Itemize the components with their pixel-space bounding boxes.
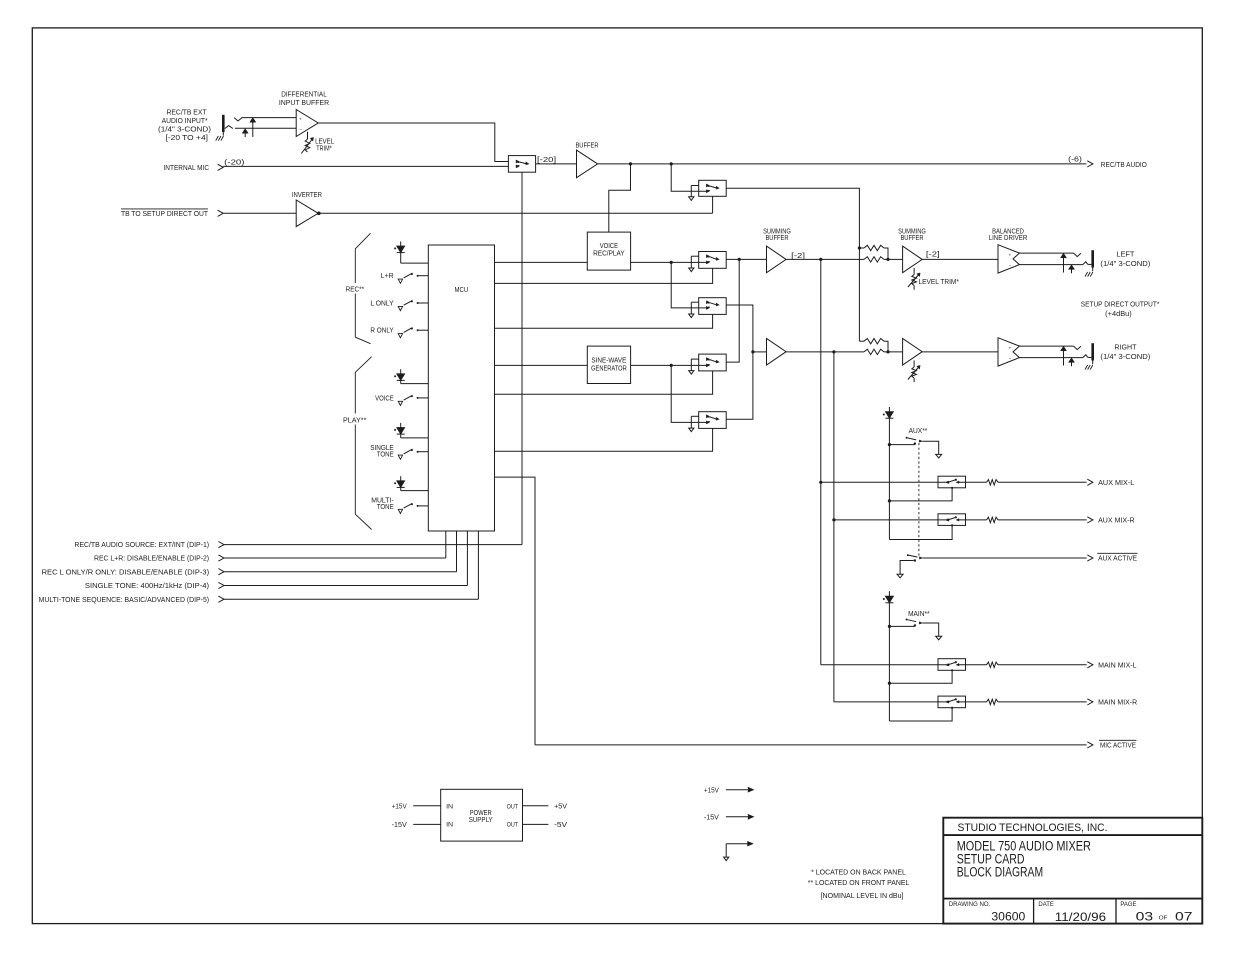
junction summing feed left	[858, 246, 861, 249]
svg-text:MAIN**: MAIN**	[908, 611, 930, 618]
wire junction down to VOICE REC/PLAY	[609, 164, 631, 232]
switch AUX ACTIVE contact	[909, 555, 918, 557]
svg-text:* LOCATED ON BACK PANEL: * LOCATED ON BACK PANEL	[811, 870, 906, 877]
svg-text:SETUP DIRECT OUTPUT*: SETUP DIRECT OUTPUT*	[1081, 301, 1160, 308]
svg-text:LEVEL TRIM*: LEVEL TRIM*	[919, 279, 960, 286]
junction main switch	[888, 625, 891, 628]
analog switch S6 tone right	[699, 412, 727, 429]
svg-text:[-2]: [-2]	[791, 253, 805, 260]
junction main control	[888, 682, 891, 685]
ground legend symbol	[726, 843, 749, 845]
wire S3 control to MCU	[495, 268, 713, 283]
junction aux control	[888, 499, 891, 502]
op-amp U1 differential input buffer	[296, 110, 318, 137]
svg-text:BUFFER: BUFFER	[575, 143, 598, 150]
svg-text:REC**: REC**	[346, 286, 365, 293]
block VOICE REC/PLAY	[587, 232, 630, 270]
svg-text:MAIN MIX-R: MAIN MIX-R	[1098, 700, 1137, 707]
potentiometer LEVEL TRIM left output	[913, 268, 915, 275]
svg-text:TRIM*: TRIM*	[316, 145, 332, 152]
wire S4 output to summing buffer B	[726, 305, 753, 352]
svg-text:INPUT BUFFER: INPUT BUFFER	[279, 100, 329, 107]
wire S3 output to summing buffer A	[726, 258, 766, 260]
wire S6 output up to summing buffer B input	[726, 352, 753, 419]
wire -15V to power supply	[413, 823, 441, 825]
wire DIP-5	[224, 598, 478, 600]
svg-text:LEFT: LEFT	[1116, 251, 1135, 258]
block SINE-WAVE GENERATOR	[587, 346, 630, 383]
junction S4/S6 join	[751, 350, 754, 353]
svg-text:MAIN MIX-L: MAIN MIX-L	[1098, 662, 1137, 669]
wire U1 output to source switch	[318, 123, 508, 162]
svg-text:PLAY**: PLAY**	[343, 417, 367, 424]
svg-text:AUX ACTIVE: AUX ACTIVE	[1098, 556, 1137, 563]
svg-text:VOICE: VOICE	[600, 243, 619, 250]
title block frame	[943, 818, 1202, 924]
switch L+R pushbutton	[418, 275, 429, 277]
svg-text:[-2]: [-2]	[926, 252, 940, 259]
svg-text:REC/TB AUDIO SOURCE: EXT/INT (: REC/TB AUDIO SOURCE: EXT/INT (DIP-1)	[74, 542, 209, 549]
analog switch S4 voice right	[699, 298, 727, 315]
svg-text:REC/PLAY: REC/PLAY	[593, 251, 625, 258]
node REC/TB AUDIO output arrow	[1087, 161, 1093, 167]
op-amp U6 summing buffer left output	[903, 246, 923, 273]
svg-text:OUT: OUT	[507, 803, 518, 810]
svg-text:L ONLY: L ONLY	[370, 300, 394, 307]
ground at MAIN switch	[938, 635, 940, 637]
wire MAIN MIX-R out	[998, 701, 1087, 703]
ground at S2	[691, 185, 698, 187]
svg-text:IN: IN	[446, 803, 453, 810]
analog switch S5 tone left	[699, 354, 727, 371]
wire INTERNAL MIC to source switch	[223, 165, 508, 167]
wire MAIN MIX-R line	[834, 701, 947, 703]
junction buffer output to voice rec/play	[629, 162, 632, 165]
wire DIP-3	[224, 571, 457, 573]
svg-text:DIFFERENTIAL: DIFFERENTIAL	[281, 91, 327, 98]
wire MAIN MIX-L line	[821, 664, 947, 666]
node -15V arrow legend	[726, 816, 750, 818]
node MAIN MIX-R arrow	[1087, 699, 1093, 705]
analog switch S1 REC/TB source EXT/INT	[508, 156, 535, 173]
wire driver left cold output	[1019, 264, 1083, 266]
wire MAIN MIX-L out	[998, 664, 1087, 666]
wire S1 control to DIP-1	[521, 172, 523, 544]
wire SINE output	[631, 364, 707, 366]
wire ganged link AUX (dashed)	[918, 443, 920, 557]
wire +5V output	[523, 805, 549, 807]
svg-text:(1/4" 3-COND): (1/4" 3-COND)	[158, 126, 211, 133]
svg-text:[NOMINAL LEVEL IN dBu]: [NOMINAL LEVEL IN dBu]	[821, 893, 904, 900]
svg-text:STUDIO TECHNOLOGIES, INC.: STUDIO TECHNOLOGIES, INC.	[958, 822, 1108, 834]
wire U7 to line driver right	[922, 351, 998, 353]
wire MCU to SINE-WAVE GENERATOR	[495, 364, 588, 366]
analog switch S7 AUX MIX-L	[938, 476, 966, 488]
node TB TO SETUP DIRECT OUT input arrow	[218, 210, 224, 216]
potentiometer trim right output	[913, 360, 915, 367]
svg-text:TONE: TONE	[377, 504, 394, 511]
resistor summing left lower	[864, 257, 884, 262]
resistor summing right lower	[864, 349, 884, 354]
svg-text:TB TO SETUP DIRECT OUT: TB TO SETUP DIRECT OUT	[121, 211, 209, 218]
junction resistor node left	[886, 258, 889, 261]
wire AUX MIX-L out	[998, 481, 1087, 483]
svg-text:+5V: +5V	[554, 803, 567, 810]
connector J3 RIGHT output jack	[1074, 346, 1081, 350]
svg-text:LEVEL: LEVEL	[315, 138, 334, 145]
wire S4 control to MCU	[495, 314, 713, 328]
brace REC group	[355, 233, 370, 283]
wire buffer B input	[753, 351, 767, 353]
brace PLAY group	[355, 357, 371, 414]
analog switch S2 TB mute	[699, 180, 727, 196]
wire REC/TB AUDIO line	[598, 163, 1087, 165]
analog switch S8 AUX MIX-R	[938, 514, 966, 526]
svg-text:MIC ACTIVE: MIC ACTIVE	[1100, 743, 1136, 750]
wire +15V to power supply	[413, 805, 441, 807]
svg-text:SUPPLY: SUPPLY	[469, 817, 493, 824]
svg-text:+15V: +15V	[392, 803, 407, 810]
node AUX MIX-L arrow	[1087, 479, 1093, 485]
block POWER SUPPLY	[441, 789, 523, 841]
wire buffer B output	[786, 351, 864, 353]
svg-text:-5V: -5V	[554, 822, 567, 829]
svg-text:BUFFER: BUFFER	[900, 235, 923, 242]
svg-text:11/20/96: 11/20/96	[1055, 910, 1107, 924]
svg-text:−: −	[299, 128, 302, 133]
svg-text:30600: 30600	[991, 909, 1025, 923]
svg-text:(-6): (-6)	[1068, 157, 1082, 164]
switch SINGLE TONE pushbutton	[418, 451, 429, 453]
svg-text:BLOCK DIAGRAM: BLOCK DIAGRAM	[957, 865, 1043, 880]
wire driver right hot output	[1019, 345, 1074, 347]
wire U6 to line driver left	[922, 258, 998, 260]
svg-text:VOICE: VOICE	[375, 395, 394, 402]
LED SINGLE TONE indicator	[400, 423, 402, 428]
wire aux/main right bus	[833, 352, 835, 702]
svg-text:-15V: -15V	[704, 815, 719, 822]
svg-text:TONE: TONE	[377, 451, 394, 458]
junction aux mix-r tap	[832, 518, 835, 521]
LED REC indicator	[400, 241, 402, 246]
svg-text:-15V: -15V	[392, 822, 407, 829]
junction resistor node right	[886, 350, 889, 353]
svg-text:+: +	[299, 118, 302, 123]
switch MAIN enable	[889, 625, 915, 627]
wire S8 control	[889, 525, 952, 539]
svg-text:GENERATOR: GENERATOR	[591, 366, 627, 373]
junction voice output	[670, 261, 673, 264]
connector J1 REC/TB EXT AUDIO INPUT jack	[222, 115, 225, 132]
wire driver left hot output	[1019, 252, 1074, 254]
wire S7 control	[889, 488, 952, 501]
svg-text:SINE-WAVE: SINE-WAVE	[591, 358, 626, 365]
wire voice to right-channel switch	[671, 262, 707, 308]
junction buffer A output to aux/main L	[819, 258, 822, 261]
resistor summing left upper	[859, 247, 864, 249]
wire MCU to MIC ACTIVE	[495, 477, 536, 745]
svg-text:(1/4" 3-COND): (1/4" 3-COND)	[1100, 354, 1150, 361]
svg-text:REC/TB EXT: REC/TB EXT	[167, 110, 208, 117]
wire AUX MIX-R out	[998, 519, 1087, 521]
junction buffer output to TB mute switch	[670, 162, 673, 165]
node +15V arrow legend	[726, 789, 750, 791]
op-amp U2 buffer	[577, 150, 598, 178]
ground at AUX switch	[938, 453, 940, 455]
node INTERNAL MIC input arrow	[218, 164, 224, 170]
svg-text:OUT: OUT	[507, 822, 518, 829]
svg-text:+15V: +15V	[704, 787, 719, 794]
op-amp U8 balanced line driver left	[998, 245, 1019, 273]
wire S6 control to MCU	[495, 428, 713, 451]
svg-text:+: +	[1009, 253, 1012, 258]
svg-text:AUDIO INPUT*: AUDIO INPUT*	[162, 118, 208, 125]
node AUX ACTIVE arrow	[1087, 555, 1093, 561]
LED MULTI-TONE indicator	[400, 476, 402, 481]
wire S5 control to MCU	[495, 371, 713, 394]
node DIP-2 input arrow	[218, 555, 224, 561]
svg-text:[-20 TO +4]: [-20 TO +4]	[166, 135, 209, 142]
node MAIN MIX-L arrow	[1087, 662, 1093, 668]
svg-text:(-20): (-20)	[224, 159, 244, 166]
svg-text:REC L+R: DISABLE/ENABLE (DIP-2: REC L+R: DISABLE/ENABLE (DIP-2)	[94, 556, 209, 563]
svg-text:OF: OF	[1159, 915, 1169, 921]
potentiometer LEVEL TRIM input	[307, 132, 309, 139]
svg-text:(1/4" 3-COND): (1/4" 3-COND)	[1100, 261, 1150, 268]
node DIP-4 input arrow	[218, 582, 224, 588]
svg-text:REC/TB AUDIO: REC/TB AUDIO	[1101, 162, 1148, 169]
svg-text:IN: IN	[446, 822, 453, 829]
svg-text:RIGHT: RIGHT	[1114, 344, 1137, 351]
node DIP-3 input arrow	[218, 569, 224, 575]
svg-text:+: +	[1009, 346, 1012, 351]
resistor AUX MIX-L	[987, 480, 999, 485]
wire DIP-1	[224, 544, 522, 546]
op-amp U5 summing buffer B	[767, 338, 787, 365]
wire junction down to TB mute switch input	[671, 164, 707, 191]
switch AUX enable	[889, 444, 915, 446]
LED MAIN indicator	[888, 591, 890, 596]
resistor MAIN MIX-R	[987, 699, 999, 704]
node MIC ACTIVE arrow	[1087, 742, 1093, 748]
ground at AUX ACTIVE switch	[899, 573, 901, 576]
svg-text:BUFFER: BUFFER	[765, 235, 788, 242]
wire MIC ACTIVE out	[535, 744, 1087, 746]
wire AUX MIX-L line	[821, 481, 947, 483]
wire DIP-4	[224, 585, 467, 587]
node AUX MIX-R arrow	[1087, 517, 1093, 523]
op-amp U7 summing buffer right output	[903, 338, 923, 365]
svg-text:MULTI-TONE SEQUENCE: BASIC/ADV: MULTI-TONE SEQUENCE: BASIC/ADVANCED (DIP…	[39, 597, 210, 604]
node DIP-5 input arrow	[218, 596, 224, 602]
op-amp U9 balanced line driver right	[998, 338, 1019, 366]
wire S2 output to summing resistors	[726, 188, 859, 341]
analog switch S10 MAIN MIX-R	[938, 696, 966, 708]
svg-text:MCU: MCU	[455, 287, 469, 294]
svg-text:AUX MIX-R: AUX MIX-R	[1098, 518, 1135, 525]
wire input jack to buffer - input	[235, 127, 296, 129]
svg-text:07: 07	[1175, 909, 1193, 923]
wire inverter output to TB mute switch control	[318, 212, 712, 214]
svg-text:03: 03	[1136, 909, 1154, 923]
analog switch S3 voice left	[699, 252, 727, 269]
wire S9 control	[889, 670, 952, 683]
svg-text:LINE DRIVER: LINE DRIVER	[989, 235, 1028, 242]
wire VOICE REC/PLAY output	[631, 261, 707, 263]
junction buffer B to aux/main R	[832, 350, 835, 353]
svg-text:DATE: DATE	[1038, 901, 1054, 908]
ground chassis at right jack	[1085, 365, 1088, 370]
LED AUX indicator	[888, 407, 890, 412]
wire MCU to VOICE REC/PLAY	[495, 261, 588, 263]
svg-text:** LOCATED ON FRONT PANEL: ** LOCATED ON FRONT PANEL	[808, 880, 910, 887]
svg-text:PAGE: PAGE	[1120, 901, 1137, 908]
junction aux switch	[888, 443, 891, 446]
svg-text:INTERNAL MIC: INTERNAL MIC	[164, 165, 210, 172]
wire input jack to buffer + input	[242, 117, 297, 119]
svg-text:(+4dBu): (+4dBu)	[1105, 311, 1132, 318]
svg-text:[-20]: [-20]	[537, 157, 556, 164]
switch VOICE pushbutton	[418, 397, 429, 399]
node DIP-1 input arrow	[218, 542, 224, 548]
junction aux mix-l tap	[819, 481, 822, 484]
analog switch S9 MAIN MIX-L	[938, 659, 966, 671]
resistor MAIN MIX-L	[987, 662, 999, 667]
svg-text:INVERTER: INVERTER	[292, 192, 322, 199]
wire buffer A output	[786, 258, 864, 260]
wire DIP-2	[224, 557, 446, 559]
svg-text:SINGLE TONE: 400Hz/1kHz (DIP-4: SINGLE TONE: 400Hz/1kHz (DIP-4)	[85, 583, 209, 590]
svg-text:POWER: POWER	[470, 810, 492, 817]
svg-text:DRAWING NO.: DRAWING NO.	[949, 901, 991, 908]
wire TB input to inverter	[223, 212, 296, 214]
wire S10 control	[889, 708, 952, 721]
ground at S3	[691, 255, 698, 257]
wire -5V output	[523, 823, 549, 825]
switch MULTI-TONE pushbutton	[418, 505, 429, 507]
svg-text:−: −	[1009, 357, 1012, 362]
block MCU microcontroller	[428, 245, 494, 531]
svg-text:AUX MIX-L: AUX MIX-L	[1098, 480, 1134, 487]
svg-text:AUX**: AUX**	[909, 428, 928, 435]
op-amp U4 summing buffer A	[767, 246, 787, 273]
junction sine output	[670, 364, 673, 367]
junction tone-left join	[738, 258, 741, 261]
ground chassis at left jack	[1085, 272, 1088, 277]
svg-text:REC L ONLY/R ONLY: DISABLE/ENA: REC L ONLY/R ONLY: DISABLE/ENABLE (DIP-3…	[42, 569, 209, 576]
wire AUX ACTIVE out	[923, 557, 1087, 559]
wire aux/main left bus	[820, 259, 822, 664]
wire S5 output up to summing buffer A input	[726, 259, 739, 362]
wire driver right cold output	[1019, 357, 1083, 359]
wire AUX MIX-R line	[834, 519, 947, 521]
ground at S5	[691, 358, 698, 360]
switch R ONLY pushbutton	[418, 329, 429, 331]
connector J2 LEFT output jack	[1074, 253, 1081, 257]
ground at S4	[691, 301, 698, 303]
wire sine to right-channel switch	[671, 365, 707, 422]
LED VOICE indicator	[400, 369, 402, 374]
svg-text:R ONLY: R ONLY	[370, 328, 394, 335]
ground at S6	[691, 415, 698, 417]
svg-text:L+R: L+R	[381, 273, 394, 280]
ground chassis at input jack	[216, 136, 219, 141]
svg-text:−: −	[1009, 264, 1012, 269]
wire S1 output to buffer U2	[536, 163, 577, 165]
resistor AUX MIX-R	[987, 517, 999, 522]
resistor summing right upper	[859, 340, 864, 342]
op-amp U3 inverter	[296, 200, 318, 227]
switch L ONLY pushbutton	[418, 302, 429, 304]
